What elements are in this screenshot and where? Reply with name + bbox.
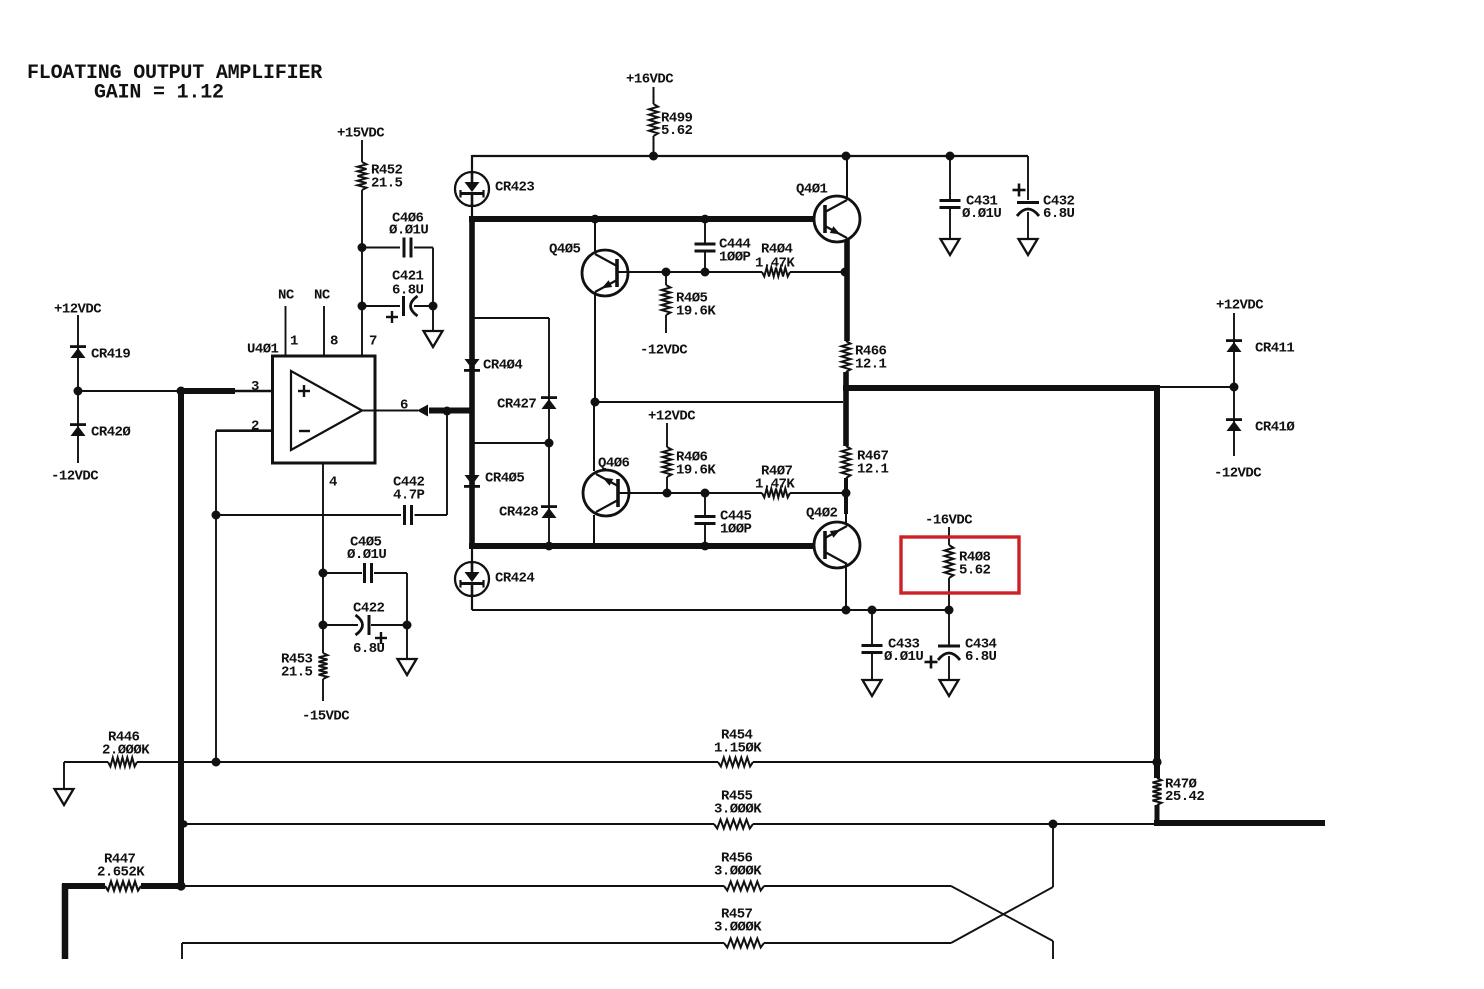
node R457 riser junction [1049,820,1058,829]
node R447/bus junction [176,881,185,890]
wire pin4 lead [322,463,324,653]
svg-text:5.62: 5.62 [661,123,693,139]
wire rail to CR423 [471,155,473,173]
resistor R456 [714,851,764,891]
diode CR423 [455,172,534,206]
resistor R457 [714,907,764,948]
wire C405 right leg [406,573,408,625]
pin number 2 [251,419,259,435]
wire C406 right leg [432,248,434,307]
svg-text:Q4Ø1: Q4Ø1 [796,182,828,198]
node C433 junction [868,606,877,615]
svg-text:6.8U: 6.8U [392,283,424,299]
net -15VDC label [302,709,350,725]
net +12VDC label (mid) [648,409,696,425]
capacitor C422 (electrolytic) [323,601,407,658]
resistor R470 [1153,777,1205,806]
resistor R454 [714,728,762,767]
node C445 bus junction [701,542,710,551]
svg-text:Ø.Ø1U: Ø.Ø1U [347,547,386,563]
net +12VDC label (right) [1216,298,1264,314]
ground below C433 [863,680,882,696]
wire emitter rail [595,401,843,403]
wire R467 bottom (thick) [844,478,848,523]
pin number 8 [330,334,338,350]
wire CR411/CR410 column [1233,313,1235,456]
svg-text:CR419: CR419 [91,347,130,363]
wire upper thick bus [469,216,814,222]
net -16VDC label [925,513,973,529]
net -12VDC label (mid) [640,343,688,359]
ground below C434 [940,680,959,696]
net +12VDC label (left) [54,302,102,318]
svg-text:12.1: 12.1 [857,462,889,478]
svg-text:19.6K: 19.6K [676,463,716,479]
svg-text:2.652K: 2.652K [97,865,145,881]
node R407/R467 junction [842,489,851,498]
diode CR419 [70,347,130,363]
wire Q405 base rail [617,271,845,273]
transistor Q402 [806,506,860,569]
pin number 4 [329,475,337,491]
wire pin2 riser [215,431,217,762]
svg-text:1: 1 [290,334,298,350]
svg-text:+12VDC: +12VDC [1216,298,1264,314]
svg-text:1.47K: 1.47K [755,256,795,272]
svg-text:NC: NC [278,288,295,304]
svg-text:8: 8 [330,334,338,350]
wire R453 to -15VDC [322,679,324,701]
schematic title [27,62,322,105]
diode CR411 [1226,341,1294,357]
wire thick output vertical [1154,385,1160,778]
capacitor C421 (electrolytic) [362,269,433,324]
wire Q406 base rail [618,492,845,494]
transistor Q401 [796,182,860,243]
capacitor C434 (electrolytic) [925,610,997,680]
pin 8 stub [323,306,325,356]
wire Q401 emitter (thick) [844,240,850,341]
svg-text:Ø.Ø1U: Ø.Ø1U [962,206,1001,222]
svg-text:+15VDC: +15VDC [337,126,385,142]
svg-text:5.62: 5.62 [959,563,991,579]
svg-text:-12VDC: -12VDC [51,469,99,485]
wire thick feedback bus [178,388,184,886]
node C421 junction [358,302,367,311]
ground below C431 [941,239,960,255]
resistor R447 [97,852,145,891]
capacitor C431 [940,156,1002,239]
svg-text:CR41Ø: CR41Ø [1255,420,1295,436]
pin 1 stub [285,306,287,356]
node R406 bottom junction [663,489,672,498]
wire R457 line [182,942,951,944]
node C445 top junction [701,489,710,498]
svg-text:Q4Ø2: Q4Ø2 [806,506,838,522]
svg-text:1ØØP: 1ØØP [720,522,752,538]
svg-text:3.ØØØK: 3.ØØØK [714,802,762,818]
wire R456 diagonal [951,886,1053,959]
ground below C422 [398,659,417,675]
svg-text:CR424: CR424 [495,571,534,587]
wire Q405 emitter down [594,295,596,402]
pin number 1 [290,334,298,350]
diode CR410 [1226,420,1295,436]
wire lower thick bus [469,543,814,549]
wire Q406 collector to bus [593,515,595,546]
wire thick output horizontal [843,385,1157,391]
node C444 bus junction [701,215,710,224]
net -12VDC label (left) [51,469,99,485]
wire Q402 emitter [845,564,847,610]
wire R447 thick left [62,884,105,959]
svg-text:25.42: 25.42 [1165,789,1204,805]
svg-text:3.ØØØK: 3.ØØØK [714,864,762,880]
svg-text:12.1: 12.1 [855,357,887,373]
resistor R452 [358,162,403,192]
resistor R499 [649,104,693,139]
wire C421 to ground [432,306,434,331]
diode CR404 [464,358,522,374]
wire thick diode column [469,216,475,546]
svg-text:Q4Ø5: Q4Ø5 [549,242,581,258]
wire pin2 input [216,429,291,432]
resistor R407 [755,464,795,498]
resistor R467 [842,446,889,478]
node Q405 bus junction [591,215,600,224]
svg-text:CR4Ø4: CR4Ø4 [483,358,522,374]
resistor R405 [662,272,717,333]
wire Q401 collector [846,156,848,197]
wire R455 line [184,823,1157,825]
svg-text:Ø.Ø1U: Ø.Ø1U [389,223,428,239]
wire pin3 input [78,390,291,392]
resistor R446 [102,730,150,767]
diode CR424 [455,562,534,596]
wire CR423 to bus [471,205,473,219]
svg-text:1.15ØK: 1.15ØK [714,741,762,757]
svg-text:NC: NC [314,288,331,304]
node clamp junction (left) [74,387,83,396]
capacitor C444 [695,219,751,272]
svg-text:1ØØP: 1ØØP [719,250,751,266]
capacitor C405 [323,535,407,584]
net +15VDC label [337,126,385,142]
pin number 6 [400,398,408,414]
node C434 junction [945,606,954,615]
svg-text:-16VDC: -16VDC [925,513,973,529]
node R405 top junction [662,268,671,277]
node Q401 collector/rail junction [842,152,851,161]
wire -16VDC lead [948,527,950,545]
node C442 feedback junction [443,407,452,416]
wire bottom rail [472,609,949,611]
wire C422 to ground [406,625,408,659]
svg-text:GAIN = 1.12: GAIN = 1.12 [94,82,224,105]
wire CR419/CR420 column [77,315,79,463]
wire pin6 output [362,410,418,412]
ground below C432 [1019,239,1038,255]
wire R467 top (thick) [843,385,849,446]
wire bus to CR424 [471,549,473,563]
wire thick output bottom [1154,805,1325,823]
node C406 junction [358,243,367,252]
svg-text:CR411: CR411 [1255,341,1294,357]
svg-text:+12VDC: +12VDC [648,409,696,425]
wire diode link top [472,317,549,319]
wire output to CR411 column [1157,386,1234,388]
svg-text:21.5: 21.5 [371,176,403,192]
svg-text:CR423: CR423 [495,180,534,196]
node C405 junction [319,569,328,578]
capacitor C442 [216,475,447,526]
resistor R466 [842,341,887,373]
svg-text:CR42Ø: CR42Ø [91,425,131,441]
svg-text:U4Ø1: U4Ø1 [247,342,279,358]
svg-text:4.7P: 4.7P [393,488,425,504]
node Q402 emitter junction [842,606,851,615]
transistor Q405 [549,242,628,297]
wire top rail [472,155,1028,157]
ground below C421 [424,331,443,347]
capacitor C432 (electrolytic) [1013,184,1075,240]
pin number 3 [251,379,259,395]
svg-text:2: 2 [251,419,259,435]
node emitter rail junction [591,398,600,407]
svg-text:6.8U: 6.8U [353,641,385,657]
wire R446-R454 line [137,761,1157,763]
node pin3 bus junction [177,387,186,396]
svg-text:CR428: CR428 [499,505,538,521]
wire R452 to pin7 [361,190,363,306]
pin number 7 [369,334,377,350]
capacitor C445 [695,493,752,544]
wire +16VDC lead [653,87,655,104]
node CR428 bus junction [545,542,554,551]
svg-text:6.8U: 6.8U [965,649,997,665]
highlight box around R408 [901,537,1019,593]
label NC pin1 [278,288,295,304]
svg-text:2.ØØØK: 2.ØØØK [102,743,150,759]
svg-text:3: 3 [251,379,259,395]
wire R466 bottom (thick) [843,372,849,391]
pin 7 lead [361,306,363,356]
wire Q406 emitter to rail [593,402,595,471]
wire R447 thick right [141,883,181,889]
wire R408 to rail [948,578,950,610]
node C444 bottom junction [701,268,710,277]
diode CR428 [499,505,557,521]
resistor R453 [281,652,328,681]
node clamp junction (right) [1230,383,1239,392]
node C422 left junction [319,621,328,630]
svg-text:4: 4 [329,475,337,491]
node R404/Q401 emitter junction [841,268,850,277]
svg-text:21.5: 21.5 [281,665,313,681]
capacitor C433 [862,610,924,680]
wire diode link mid [472,442,549,444]
node R455 bus junction [180,820,187,827]
diode CR405 [464,471,524,487]
wire rail corner to C432 [1027,156,1029,200]
wire CR427 column [548,318,550,544]
wire R499 to rail [653,136,655,156]
resistor R404 [755,242,795,277]
node C442 branch junction [212,511,221,520]
resistor R406 [663,423,717,493]
svg-text:Q4Ø6: Q4Ø6 [598,456,630,472]
resistor R408 [945,545,991,579]
diode CR427 [497,397,557,413]
node R499/rail junction [649,152,658,161]
ground below R446 [55,789,74,805]
svg-text:C422: C422 [353,601,385,617]
svg-text:-12VDC: -12VDC [640,343,688,359]
svg-text:Ø.Ø1U: Ø.Ø1U [884,649,923,665]
net -12VDC label (right) [1214,466,1262,482]
svg-text:-15VDC: -15VDC [302,709,350,725]
wire R456 line [181,885,951,887]
wire +15VDC lead [361,140,363,162]
node C422 right junction [403,621,412,630]
bus arrow pin6 [417,405,471,417]
label NC pin8 [314,288,331,304]
svg-text:-12VDC: -12VDC [1214,466,1262,482]
svg-text:3.ØØØK: 3.ØØØK [714,920,762,936]
wire R457 stub [181,943,183,959]
svg-text:7: 7 [369,334,377,350]
net +16VDC label [626,72,674,88]
op-amp U401 [247,342,375,464]
wire CR424 to bottom rail [471,595,473,610]
node C431/rail junction [946,152,955,161]
wire C442 riser [446,411,448,515]
svg-text:CR427: CR427 [497,397,536,413]
diode CR420 [70,425,131,441]
svg-text:+16VDC: +16VDC [626,72,674,88]
wire R457 diagonal [951,824,1053,943]
svg-text:19.6K: 19.6K [676,304,716,320]
node R454/output junction [1152,757,1161,766]
node C421 right junction [429,302,438,311]
node pin2 riser junction [212,758,221,767]
transistor Q406 [583,456,630,517]
node link/CR427 junction [545,439,554,448]
capacitor C406 [362,211,433,258]
svg-text:CR4Ø5: CR4Ø5 [485,471,524,487]
wire R446 left to ground [64,762,108,789]
wire Q405 collector to bus [594,219,596,251]
svg-text:1.47K: 1.47K [755,477,795,493]
resistor R455 [714,789,762,829]
svg-text:6.8U: 6.8U [1043,206,1075,222]
